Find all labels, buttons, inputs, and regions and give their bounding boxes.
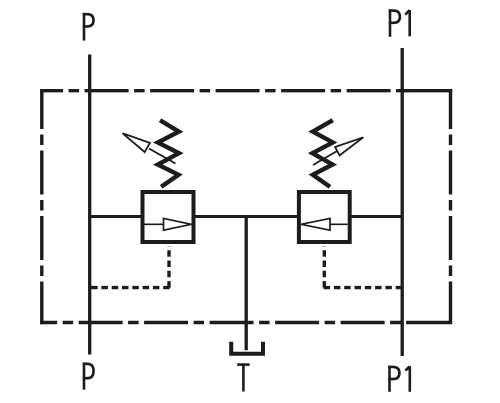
port label P (top) bbox=[83, 13, 94, 41]
enclosure border left bbox=[40, 89, 43, 324]
wire V2 to P1 bbox=[351, 215, 402, 218]
enclosure border bottom bbox=[40, 321, 452, 324]
relief valve V2 flow path arrow bbox=[301, 218, 348, 230]
relief valve V1 adjustment arrow bbox=[123, 133, 176, 163]
port line P1 bbox=[401, 48, 404, 356]
relief valve V1 pilot drain line bbox=[90, 246, 170, 288]
tank symbol bbox=[231, 342, 263, 354]
port label P (bottom) bbox=[83, 362, 94, 389]
relief valve V1 spring bbox=[158, 120, 179, 187]
relief valve V1 body bbox=[143, 192, 194, 242]
relief valve V2 body bbox=[299, 192, 350, 242]
relief valve V2 adjustment arrow bbox=[313, 137, 363, 165]
wire P to valve V1 bbox=[90, 215, 141, 218]
enclosure border right bbox=[449, 89, 452, 324]
wire V1 to center junction to V2 bbox=[195, 215, 298, 218]
relief valve V2 spring bbox=[312, 120, 332, 187]
enclosure border top bbox=[40, 89, 452, 92]
relief valve V2 pilot drain line bbox=[324, 246, 403, 288]
tank line T (junction to tank) bbox=[245, 217, 248, 351]
port label P1 (top) bbox=[389, 9, 410, 37]
relief valve V1 flow path arrow bbox=[145, 218, 192, 230]
port line P bbox=[88, 55, 91, 355]
port label T bbox=[237, 365, 250, 392]
port label P1 (bottom) bbox=[388, 366, 410, 392]
